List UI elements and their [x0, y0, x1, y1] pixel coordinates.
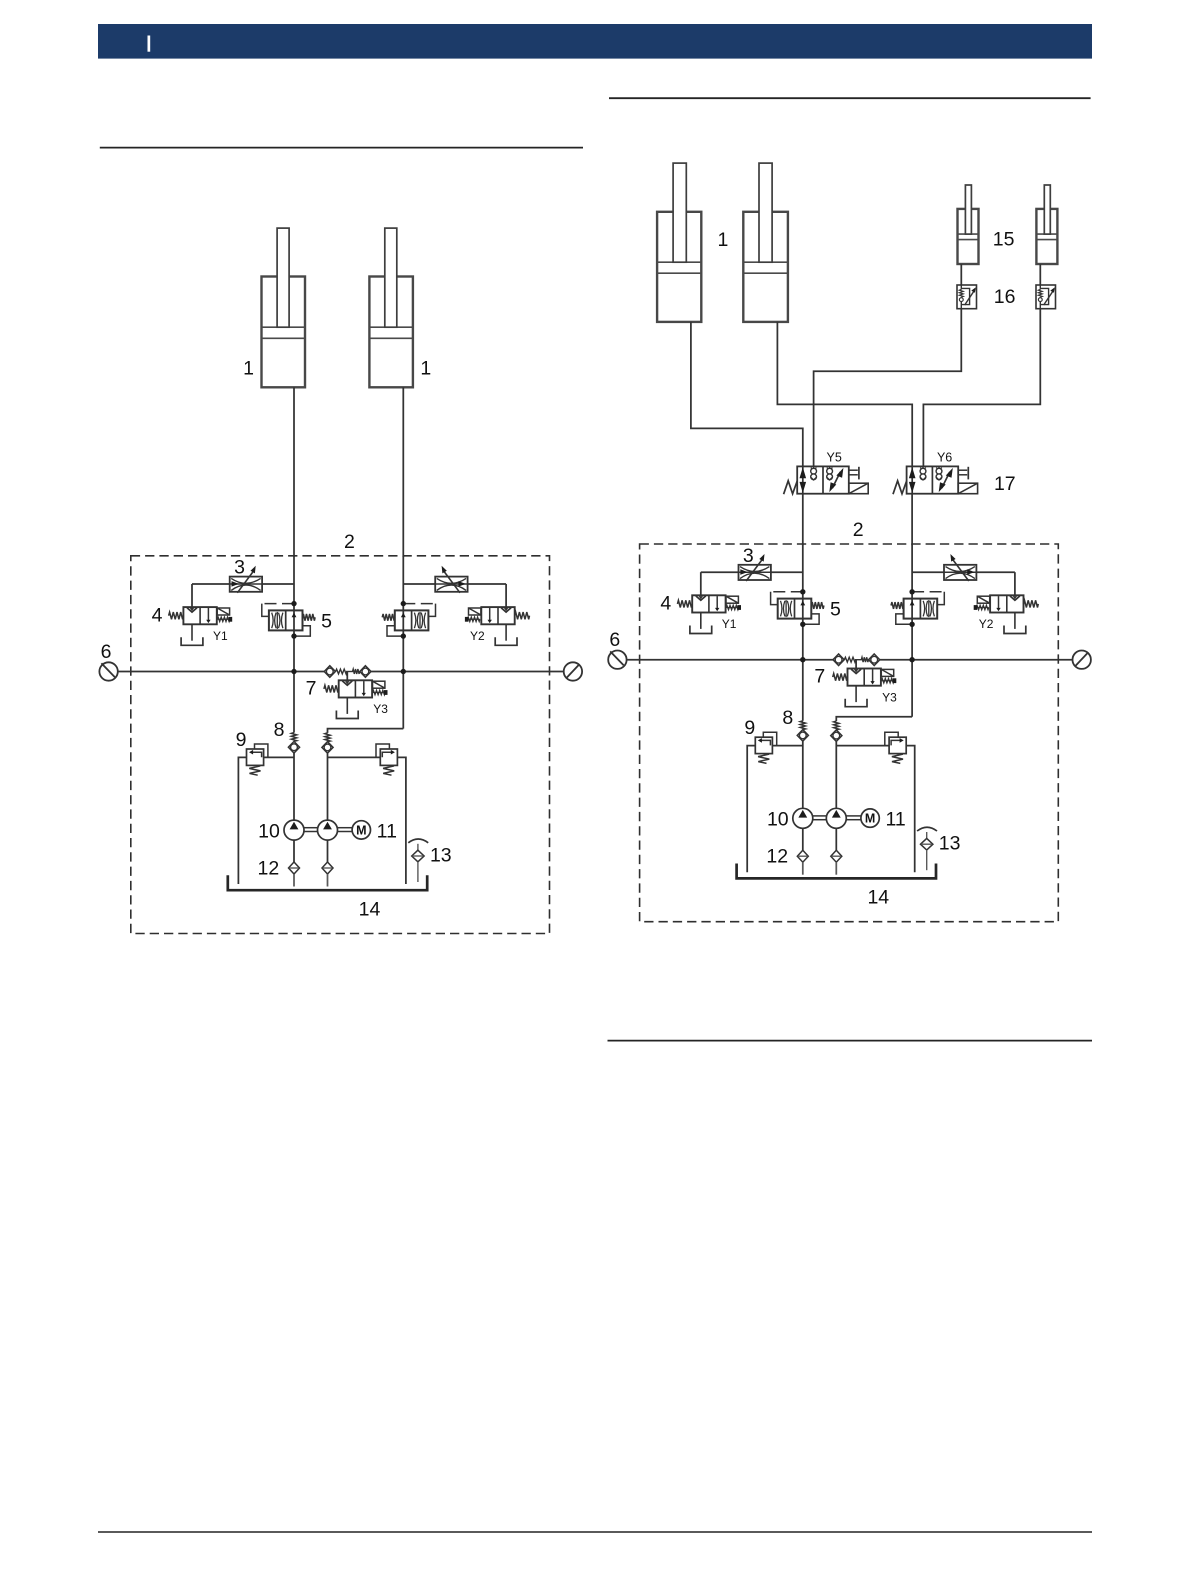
left unit: poppet valve 7 solenoid Y3	[339, 680, 372, 697]
right unit: check valve 8 line B spring	[834, 721, 839, 730]
left unit: port symbol 6 left	[99, 662, 117, 680]
right unit: wire relief left drain	[747, 746, 755, 873]
right unit: wire main line B upper	[911, 544, 913, 717]
right unit: wire line A to pump 1	[802, 741, 804, 808]
svg-text:5: 5	[321, 610, 332, 632]
right schematic: throttle check valve 16 first	[957, 285, 977, 309]
svg-text:13: 13	[939, 833, 961, 855]
right schematic: wire valve Y6 to unit line B	[911, 494, 913, 546]
left unit: counterbalance valve 5 right	[395, 610, 429, 630]
left unit: check valve pair right check	[360, 666, 371, 678]
svg-text:Y2: Y2	[979, 617, 994, 631]
right unit: counterbalance valve 5 left	[778, 599, 812, 619]
right schematic: wire cylinder B to valve Y6	[777, 322, 912, 467]
left unit: wire filter 1 to tank	[293, 874, 295, 887]
left unit: check valve 8 line A	[288, 741, 299, 753]
right unit: wire throttle branch right	[912, 571, 944, 573]
right unit: dashed enclosure box 2	[640, 544, 1059, 922]
left unit: relief valve 9 left	[247, 749, 264, 765]
svg-text:Y1: Y1	[722, 617, 737, 631]
svg-text:1: 1	[717, 229, 728, 251]
left unit: check valve 8 line A spring	[291, 733, 296, 742]
svg-text:9: 9	[236, 729, 247, 751]
svg-text:12: 12	[258, 858, 280, 880]
right unit: pump 10 second	[826, 808, 846, 828]
left unit: wire throttle branch right	[403, 583, 435, 585]
svg-text:7: 7	[814, 666, 825, 688]
right unit: wire pump 2 suction	[835, 829, 837, 851]
left schematic: wire cylinder 1 to unit line A	[293, 387, 295, 557]
right unit: poppet valve solenoid Y2	[990, 595, 1023, 612]
right unit: check valve 8 line B	[831, 730, 842, 742]
svg-text:Y3: Y3	[882, 690, 897, 704]
right unit: counterbalance valve 5 right	[904, 599, 938, 619]
left unit: wire between check pair springs	[346, 671, 353, 673]
left unit: wire main line B elbow to check valve	[328, 729, 404, 733]
svg-text:11: 11	[885, 809, 905, 831]
right unit: wire main line B elbow to check valve	[836, 717, 912, 721]
right unit: wire between check pair springs	[855, 659, 862, 661]
svg-text:M: M	[865, 812, 875, 826]
left unit: breather filter 13	[408, 839, 428, 843]
svg-text:4: 4	[152, 605, 163, 627]
svg-text:2: 2	[344, 531, 355, 553]
left column rule	[100, 147, 583, 149]
right schematic: wire cyl 15 first to throttle check 16	[960, 264, 962, 285]
right unit: poppet valve 7 solenoid Y3	[848, 669, 881, 686]
left unit: port symbol 6 right	[564, 662, 582, 680]
left unit: spring right of node	[353, 669, 360, 674]
right unit: port symbol 6 left	[608, 651, 626, 669]
svg-text:16: 16	[994, 286, 1016, 308]
svg-text:17: 17	[994, 473, 1016, 495]
left unit: wire relief left drain	[238, 757, 246, 884]
left unit: node main line B / port line	[401, 670, 405, 674]
svg-text:9: 9	[744, 717, 755, 739]
left unit: filter 12 first	[289, 862, 300, 874]
svg-text:M: M	[356, 823, 366, 837]
right unit: motor 11	[861, 809, 879, 827]
header letter I	[148, 36, 151, 52]
right schematic: valve 17 solenoid Y5	[797, 466, 849, 493]
right unit: throttle valve 3 left	[739, 565, 771, 580]
right unit: wire pump 1 suction	[802, 829, 804, 851]
left unit: wire line B to relief valve	[328, 756, 381, 758]
right schematic: wire valve Y5 to unit line A	[802, 494, 804, 546]
left unit: check valve 8 line B spring	[325, 733, 330, 742]
svg-text:13: 13	[430, 845, 452, 867]
right unit: pump 10 first	[793, 808, 813, 828]
svg-text:12: 12	[766, 846, 788, 868]
svg-text:10: 10	[767, 809, 789, 831]
svg-text:3: 3	[743, 545, 754, 567]
svg-text:Y5: Y5	[827, 451, 842, 465]
svg-text:7: 7	[306, 677, 317, 699]
right unit: tank 14	[737, 864, 936, 879]
svg-text:10: 10	[258, 821, 280, 843]
right unit: filter 12 second	[831, 850, 842, 862]
right unit: wire line B to relief valve	[836, 745, 889, 747]
left unit: poppet valve 4 solenoid Y1	[183, 607, 216, 624]
right unit: wire throttle branch left	[701, 571, 739, 573]
svg-text:14: 14	[867, 887, 889, 909]
svg-text:6: 6	[101, 641, 112, 663]
left unit: wire filter 2 to tank	[327, 874, 329, 887]
right unit: wire relief right drain	[906, 746, 915, 873]
header bar	[98, 24, 1092, 59]
right unit: wire main line A (from cylinder branch down)	[802, 544, 804, 721]
right unit: node main line B / port line	[910, 658, 914, 662]
svg-text:2: 2	[853, 519, 864, 541]
right unit: throttle valve 3 right	[944, 565, 976, 580]
right unit: check valve 8 line A	[797, 730, 808, 742]
page bottom rule	[98, 1531, 1092, 1533]
left unit: wire node to valve 7	[346, 672, 348, 681]
right schematic: valve 17 solenoid Y6	[907, 466, 959, 493]
left unit: throttle valve 3 left	[230, 577, 262, 592]
right unit: wire filter 1 to tank	[802, 862, 804, 875]
svg-text:Y3: Y3	[373, 702, 388, 716]
svg-text:6: 6	[609, 629, 620, 651]
left unit: dashed enclosure box 2	[131, 556, 550, 934]
right unit: wire line A to relief valve	[772, 745, 802, 747]
left unit: check valve pair left check	[324, 666, 335, 678]
right unit: check valve 8 line A spring	[800, 721, 805, 730]
left unit: relief valve 9 right	[380, 749, 397, 765]
svg-text:Y1: Y1	[213, 629, 228, 643]
right schematic: wire cyl 15 second to throttle check 16	[1039, 264, 1041, 285]
right unit: check valve pair left check	[833, 654, 844, 666]
svg-text:15: 15	[993, 229, 1015, 251]
right column top rule	[609, 97, 1091, 99]
left unit: wire line A to relief valve	[264, 756, 294, 758]
svg-text:1: 1	[243, 357, 254, 379]
svg-text:Y2: Y2	[470, 629, 485, 643]
svg-text:8: 8	[274, 719, 285, 741]
right unit: relief valve 9 left	[755, 737, 772, 753]
left schematic: wire cylinder 2 to unit line B	[402, 387, 404, 557]
left unit: wire port line	[118, 671, 324, 673]
svg-text:4: 4	[660, 593, 671, 615]
right unit: relief valve 9 right	[889, 737, 906, 753]
left unit: throttle valve 3 right	[435, 577, 467, 592]
right unit: node main line A / port line	[801, 658, 805, 662]
right schematic: throttle check valve 16 second	[1036, 285, 1056, 309]
right unit: wire node to valve 7	[855, 660, 857, 669]
left unit: wire line B to pump 2	[327, 753, 329, 820]
right schematic: wire throttle 16 first to valve Y5	[814, 309, 962, 467]
left unit: wire relief right drain	[397, 757, 406, 884]
left unit: wire main line A (from cylinder branch down)	[293, 556, 295, 733]
right schematic: cylinder 1 first	[657, 212, 701, 322]
left unit: filter 12 second	[322, 862, 333, 874]
left unit: pump 10 first	[284, 820, 304, 840]
left unit: spring left of node	[336, 669, 347, 674]
right unit: poppet valve 4 solenoid Y1	[692, 595, 725, 612]
right column bottom rule	[608, 1040, 1093, 1042]
left unit: wire line A to pump 1	[293, 753, 295, 820]
left unit: wire pump 1 suction	[293, 840, 295, 862]
left schematic: cylinder 1 second	[369, 277, 413, 388]
right unit: breather filter 13	[917, 827, 937, 831]
svg-text:1: 1	[420, 357, 431, 379]
svg-text:14: 14	[359, 899, 381, 921]
right schematic: cylinder 1 second	[743, 212, 788, 322]
left unit: node main line A / port line	[292, 670, 296, 674]
left unit: tank 14	[228, 875, 427, 890]
right unit: check valve pair right check	[869, 654, 880, 666]
right unit: spring left of node	[844, 657, 855, 662]
right unit: spring right of node	[861, 657, 868, 662]
right schematic: wire throttle 16 second to valve Y6	[923, 309, 1040, 467]
left unit: wire throttle branch left	[192, 583, 230, 585]
svg-text:3: 3	[234, 557, 245, 579]
right unit: wire line B to pump 2	[835, 741, 837, 808]
left unit: poppet valve solenoid Y2	[481, 607, 514, 624]
left unit: counterbalance valve 5 left	[269, 610, 303, 630]
left schematic: cylinder 1 first	[262, 277, 306, 388]
left unit: check valve 8 line B	[322, 742, 333, 754]
left unit: motor 11	[352, 821, 370, 839]
svg-text:Y6: Y6	[937, 451, 952, 465]
left unit: shaft coupling lines	[304, 827, 318, 829]
right unit: shaft coupling lines	[813, 815, 827, 817]
right unit: port symbol 6 right	[1073, 651, 1091, 669]
right unit: wire filter 2 to tank	[835, 862, 837, 875]
left unit: wire main line B upper	[402, 556, 404, 729]
svg-text:5: 5	[830, 599, 841, 621]
svg-text:11: 11	[377, 821, 397, 843]
right schematic: wire cylinder A to valve Y5	[691, 322, 803, 467]
svg-text:8: 8	[782, 707, 793, 729]
right unit: wire port line	[627, 659, 834, 661]
right unit: filter 12 first	[797, 850, 808, 862]
right schematic: small cylinder 15 second	[1036, 209, 1057, 264]
left unit: wire pump 2 suction	[327, 840, 329, 862]
right schematic: small cylinder 15 first	[958, 209, 979, 264]
left unit: pump 10 second	[318, 820, 338, 840]
